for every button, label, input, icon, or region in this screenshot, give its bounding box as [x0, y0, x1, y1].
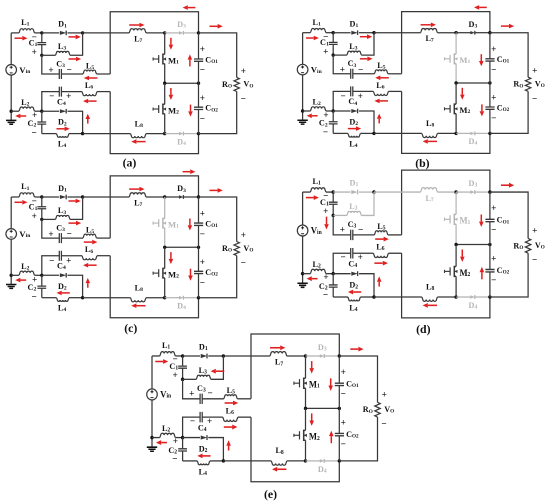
svg-text:(c): (c) — [124, 321, 137, 335]
inductor L4 (e) — [183, 460, 198, 462]
svg-text:−: − — [491, 276, 496, 286]
diode D1 (a) — [42, 32, 59, 34]
current arrow arrow CO2 down (a) — [190, 105, 192, 112]
inductor L5 (b) — [374, 70, 387, 74]
svg-text:−: − — [532, 93, 537, 103]
capacitor C4 (d) — [353, 252, 374, 254]
capacitor C3 (a) — [42, 55, 59, 74]
current arrow arrow M2 down (a) — [170, 88, 172, 95]
inductor L5 (d) — [374, 231, 387, 235]
inductor L8 (e) — [271, 461, 286, 465]
capacitor C3 (e) — [183, 379, 200, 398]
current arrow arrow L3 right (b) — [360, 58, 368, 60]
wire: main top (L7) (b) — [374, 32, 421, 34]
wire: mid node (d) — [456, 243, 490, 245]
current arrow arrow L5 right (d) — [375, 238, 383, 240]
svg-text:+: + — [341, 368, 346, 378]
svg-text:−: − — [323, 127, 328, 137]
diode D3 (c) — [165, 196, 180, 198]
current arrow arrow CO1 down (e) — [330, 378, 332, 385]
svg-text:+: + — [491, 44, 496, 54]
inductor L1 (d) — [310, 188, 325, 192]
capacitor C3 (b) — [333, 55, 350, 74]
current arrow arrow L5 right (e) — [225, 402, 233, 404]
capacitor C1 (a) — [41, 33, 43, 43]
inductor L7 (b) — [421, 28, 438, 32]
inductor L4 (b) — [333, 132, 348, 134]
svg-text:+: + — [491, 93, 496, 103]
svg-text:+: + — [200, 93, 205, 103]
svg-text:+: + — [200, 44, 205, 54]
current arrow arrow CO1 down (c) — [189, 219, 191, 226]
voltage source Vin (a) — [6, 65, 17, 76]
inductor L6 (c) — [82, 256, 97, 260]
svg-text:−: − — [358, 64, 363, 74]
diode D1 (e) — [183, 355, 200, 357]
resistor RO / output (c) — [199, 197, 237, 242]
svg-text:−: − — [172, 454, 177, 464]
current arrow arrow output right (d) — [501, 184, 509, 186]
capacitor C2 (e) — [182, 438, 184, 450]
wire: bottom rail (e) — [251, 417, 339, 482]
current arrow arrow M2 down (d) — [461, 249, 463, 256]
inductor L7 (a) — [129, 29, 146, 33]
inductor L5 (c) — [83, 234, 96, 238]
diode D2 (c) — [42, 274, 59, 276]
wire: main top (L7) (c) — [83, 196, 130, 198]
capacitor C3 (c) — [42, 219, 59, 238]
svg-text:−: − — [358, 225, 363, 235]
diode D3 (e) — [306, 355, 321, 357]
transistor M2 (e) — [305, 408, 307, 430]
inductor L2 (b) — [303, 110, 311, 112]
resistor RO / output (a) — [199, 33, 237, 78]
diode D3 (b) — [456, 32, 471, 34]
svg-text:+: + — [200, 257, 205, 267]
current arrow arrow L3 left (e) — [216, 370, 225, 372]
inductor L3 (b) — [333, 54, 347, 56]
current arrow arrow L5 right (c) — [84, 241, 92, 243]
voltage source Vin (d) — [297, 225, 308, 236]
svg-text:+: + — [358, 91, 363, 101]
current arrow arrow output right (a) — [210, 25, 218, 27]
wire: top rail (b) — [402, 12, 490, 74]
capacitor CO2 (a) — [198, 83, 200, 107]
current arrow arrow L6 left (c) — [88, 264, 96, 266]
svg-text:+: + — [241, 66, 246, 76]
diode D4 (c) — [165, 297, 180, 299]
diode D4 (e) — [306, 460, 321, 462]
current arrow arrow top rail left (a) — [188, 7, 196, 9]
current arrow arrow L4 left (d) — [353, 291, 361, 293]
wire: top rail (a) — [110, 12, 198, 74]
inductor L6 (d) — [373, 253, 388, 257]
capacitor C1 (c) — [41, 197, 43, 207]
svg-text:+: + — [48, 229, 53, 239]
diode D1 (c) — [42, 196, 59, 198]
resistor RO / output (d) — [490, 192, 528, 238]
current arrow arrow L8 left (d) — [428, 304, 437, 306]
svg-text:−: − — [341, 389, 346, 399]
transistor M1 (e) — [305, 356, 307, 378]
inductor L1 (a) — [19, 29, 34, 33]
current arrow arrow D2 branch up (c) — [87, 283, 89, 288]
transistor M2 (b) — [455, 83, 457, 104]
svg-text:(d): (d) — [416, 322, 430, 336]
current arrow arrow CO2 up (e) — [330, 436, 332, 443]
current arrow arrow C1 down (d) — [326, 217, 328, 224]
current arrow arrow L2 left (d) — [312, 278, 318, 280]
current arrow arrow L7 right (a) — [129, 24, 139, 26]
current arrow arrow L2 left (b) — [312, 115, 318, 117]
diode D4 (a) — [165, 133, 180, 135]
svg-text:−: − — [532, 255, 537, 265]
current arrow arrow output right (b) — [501, 25, 509, 27]
diode D4 (b) — [456, 132, 471, 134]
wire: bottom rail (c) — [110, 256, 198, 318]
wire: mid node (a) — [165, 82, 199, 84]
capacitor CO1 (e) — [338, 356, 340, 383]
current arrow arrow L1 right (b) — [306, 37, 314, 39]
current arrow arrow L1 right (e) — [155, 361, 163, 363]
transistor M1 (b) — [455, 33, 457, 54]
svg-text:+: + — [323, 47, 328, 57]
svg-text:−: − — [491, 113, 496, 123]
svg-text:+: + — [341, 419, 346, 429]
wire: main top (L7) (a) — [83, 32, 130, 34]
svg-text:−: − — [200, 65, 205, 75]
current arrow arrow L7 right (e) — [270, 347, 280, 349]
capacitor CO2 (c) — [198, 247, 200, 271]
transistor M2 (a) — [164, 83, 166, 104]
svg-text:+: + — [340, 65, 345, 75]
svg-text:−: − — [200, 229, 205, 239]
svg-text:+: + — [241, 230, 246, 240]
wire: bottom rail (a) — [110, 92, 198, 154]
wire: main bottom (L8) (e) — [223, 460, 271, 462]
svg-text:−: − — [67, 229, 72, 239]
svg-text:−: − — [190, 417, 195, 427]
svg-text:(e): (e) — [264, 487, 277, 501]
wire: main bottom (L8) (a) — [83, 133, 131, 135]
inductor L7 (e) — [270, 352, 287, 356]
inductor L2 (d) — [303, 273, 311, 275]
current arrow arrow L6 right (d) — [374, 262, 382, 264]
diode D2 (e) — [183, 437, 200, 439]
capacitor CO2 (d) — [489, 244, 491, 269]
diode D1 (d) — [333, 191, 350, 193]
svg-text:+: + — [491, 255, 496, 265]
svg-text:+: + — [32, 47, 37, 57]
current arrow arrow L8 left (b) — [428, 140, 437, 142]
inductor L2 (e) — [152, 437, 160, 439]
inductor L8 (c) — [131, 298, 146, 302]
capacitor C2 (c) — [41, 275, 43, 286]
inductor L7 (d) — [421, 188, 438, 192]
wire: input left loop (d) — [303, 191, 311, 193]
transistor M1 (a) — [164, 33, 166, 54]
inductor L3 (d) — [333, 214, 347, 216]
inductor L8 (a) — [131, 134, 146, 138]
diode D4 (d) — [456, 296, 471, 298]
wire: top rail (c) — [110, 176, 198, 238]
wire: input left loop (e) — [152, 355, 160, 357]
inductor L8 (d) — [422, 297, 437, 301]
current arrow arrow L5 left (a) — [89, 77, 97, 79]
wire: main bottom (L8) (c) — [83, 297, 131, 299]
wire: mid node (c) — [165, 246, 199, 248]
capacitor CO2 (b) — [489, 83, 491, 107]
current arrow arrow L1 right (a) — [15, 37, 23, 39]
capacitor CO1 (a) — [198, 33, 200, 59]
svg-text:+: + — [340, 226, 345, 236]
inductor L7 (c) — [129, 193, 146, 197]
current arrow arrow CO1 down (d) — [480, 214, 482, 221]
svg-text:(b): (b) — [415, 156, 429, 170]
current arrow arrow L7 right (b) — [421, 24, 431, 26]
wire: main top (L7) (d) — [374, 191, 421, 193]
capacitor C2 (d) — [332, 274, 334, 286]
diode D2 (b) — [333, 110, 350, 112]
transistor M2 (d) — [455, 244, 457, 266]
svg-text:−: − — [381, 419, 386, 429]
diode D1 (b) — [333, 32, 350, 34]
capacitor C4 (e) — [202, 416, 223, 418]
wire: top rail (d) — [402, 170, 490, 235]
inductor L2 (c) — [11, 274, 19, 276]
wire: input left loop (b) — [303, 32, 311, 34]
inductor L3 (e) — [183, 378, 197, 380]
capacitor CO1 (c) — [198, 197, 200, 223]
wire: main top (L7) (e) — [223, 355, 270, 357]
svg-text:+: + — [382, 390, 387, 400]
wire: mid node (b) — [456, 82, 490, 84]
current arrow arrow top rail left (b) — [479, 6, 487, 8]
ground (c) — [10, 275, 12, 284]
svg-text:+: + — [532, 66, 537, 76]
inductor L4 (c) — [42, 297, 57, 299]
svg-text:−: − — [207, 389, 212, 399]
svg-text:−: − — [241, 94, 246, 104]
inductor L3 (a) — [42, 54, 56, 56]
transistor M1 (c) — [164, 197, 166, 218]
current arrow arrow top rail right (c) — [183, 171, 191, 173]
current arrow arrow D2 branch up (b) — [378, 119, 380, 124]
current arrow arrow after D1 right (b) — [360, 36, 367, 38]
current arrow arrow output right (c) — [210, 189, 218, 191]
svg-text:(a): (a) — [123, 155, 137, 169]
svg-text:+: + — [66, 91, 71, 101]
ground (a) — [10, 111, 12, 120]
current arrow arrow L4 right (b) — [348, 128, 356, 130]
inductor L6 (b) — [373, 91, 388, 95]
current arrow arrow L6 right (e) — [224, 426, 232, 428]
svg-text:+: + — [491, 204, 496, 214]
svg-text:−: − — [341, 440, 346, 450]
svg-text:+: + — [189, 389, 194, 399]
svg-text:+: + — [48, 65, 53, 75]
voltage source Vin (c) — [6, 229, 17, 240]
wire: top rail (e) — [251, 334, 339, 399]
capacitor CO1 (d) — [489, 192, 491, 219]
voltage source Vin (b) — [297, 64, 308, 75]
diode D3 (a) — [165, 32, 180, 34]
current arrow arrow M2 down (e) — [311, 413, 313, 420]
inductor L4 (d) — [333, 296, 348, 298]
capacitor C4 (a) — [62, 91, 83, 93]
capacitor C1 (e) — [182, 356, 184, 366]
wire: bottom rail (d) — [402, 253, 490, 318]
inductor L6 (a) — [82, 92, 97, 96]
current arrow arrow CO2 down (b) — [481, 104, 483, 111]
current arrow arrow L3 right (a) — [69, 58, 77, 60]
inductor L5 (a) — [83, 70, 96, 74]
current arrow arrow M1 down (a) — [170, 38, 172, 45]
wire: main bottom (L8) (d) — [374, 296, 422, 298]
svg-text:−: − — [31, 127, 36, 137]
svg-text:+: + — [323, 207, 328, 217]
ground (e) — [151, 438, 153, 447]
svg-text:−: − — [241, 258, 246, 268]
svg-text:−: − — [491, 225, 496, 235]
inductor L2 (a) — [11, 110, 19, 112]
current arrow arrow L2 left (c) — [20, 279, 26, 281]
current arrow arrow M1 down (e) — [311, 361, 313, 368]
current arrow arrow M2 down (c) — [170, 252, 172, 259]
capacitor C4 (c) — [62, 255, 83, 257]
svg-text:−: − — [340, 253, 345, 263]
capacitor C4 (b) — [353, 90, 374, 92]
svg-text:+: + — [207, 417, 212, 427]
inductor L8 (b) — [422, 133, 437, 137]
svg-text:+: + — [172, 371, 177, 381]
inductor L1 (c) — [19, 193, 34, 197]
capacitor C2 (a) — [41, 111, 43, 122]
current arrow arrow L1 right (d) — [306, 197, 314, 199]
inductor L3 (c) — [42, 218, 56, 220]
svg-text:+: + — [358, 253, 363, 263]
svg-text:+: + — [66, 255, 71, 265]
svg-text:−: − — [323, 291, 328, 301]
transistor M2 (c) — [164, 247, 166, 268]
svg-text:+: + — [532, 227, 537, 237]
svg-text:−: − — [200, 277, 205, 287]
svg-text:−: − — [340, 91, 345, 101]
current arrow arrow CO1 up (a) — [189, 60, 191, 67]
capacitor C1 (b) — [332, 33, 334, 43]
wire: main bottom (L8) (b) — [374, 132, 422, 134]
current arrow arrow D2 branch up (e) — [228, 446, 230, 451]
diode D3 (d) — [456, 191, 471, 193]
inductor L4 (a) — [42, 133, 57, 135]
current arrow arrow L8 left (c) — [136, 305, 145, 307]
current arrow arrow L4 left (c) — [62, 292, 70, 294]
svg-text:+: + — [32, 211, 37, 221]
svg-text:−: − — [67, 65, 72, 75]
ground (d) — [302, 274, 304, 283]
wire: input left loop (c) — [11, 196, 19, 198]
current arrow arrow CO2 up (d) — [481, 272, 483, 279]
resistor RO / output (e) — [339, 356, 377, 402]
inductor L5 (e) — [224, 395, 237, 399]
voltage source Vin (e) — [147, 389, 158, 400]
current arrow arrow L1 right (c) — [15, 201, 23, 203]
svg-text:−: − — [31, 291, 36, 301]
wire: bottom rail (b) — [402, 91, 490, 153]
current arrow arrow L7 right (c) — [129, 188, 139, 190]
diode D2 (a) — [42, 110, 59, 112]
current arrow arrow D2 branch up (d) — [378, 282, 380, 287]
resistor RO / output (b) — [490, 33, 528, 78]
svg-text:−: − — [200, 113, 205, 123]
current arrow arrow L8 left (e) — [277, 468, 286, 470]
current arrow arrow after D1 right (c) — [69, 200, 76, 202]
capacitor C3 (d) — [333, 215, 350, 234]
capacitor C2 (b) — [332, 111, 334, 122]
current arrow arrow L6 left (b) — [380, 100, 388, 102]
current arrow arrow D2 branch up (a) — [87, 119, 89, 124]
svg-text:−: − — [49, 91, 54, 101]
current arrow arrow L2 left (e) — [161, 442, 167, 444]
current arrow arrow L5 left (b) — [380, 77, 388, 79]
current arrow arrow L6 left (a) — [88, 100, 96, 102]
wire: input left loop (a) — [11, 32, 19, 34]
capacitor CO1 (b) — [489, 33, 491, 59]
capacitor CO2 (e) — [338, 408, 340, 433]
current arrow arrow CO1 down (b) — [480, 54, 482, 61]
ground (b) — [302, 111, 304, 120]
inductor L1 (e) — [160, 352, 175, 356]
current arrow arrow L2 left (a) — [20, 115, 26, 117]
inductor L1 (b) — [310, 28, 325, 32]
svg-text:+: + — [200, 208, 205, 218]
current arrow arrow L8 left (a) — [136, 141, 145, 143]
capacitor C1 (d) — [332, 192, 334, 202]
current arrow arrow CO2 down (c) — [190, 269, 192, 276]
current arrow arrow L4 left (e) — [203, 455, 211, 457]
current arrow arrow L3 right (c) — [69, 222, 77, 224]
current arrow arrow L4 right (a) — [57, 128, 65, 130]
current arrow arrow output right (e) — [350, 348, 358, 350]
current arrow arrow M2 down (b) — [461, 88, 463, 95]
wire: mid node (e) — [306, 407, 340, 409]
svg-text:−: − — [491, 65, 496, 75]
transistor M1 (d) — [455, 192, 457, 214]
svg-text:−: − — [49, 255, 54, 265]
current arrow arrow after D1 right (a) — [69, 36, 76, 38]
diode D2 (d) — [333, 273, 350, 275]
inductor L6 (e) — [223, 417, 238, 421]
